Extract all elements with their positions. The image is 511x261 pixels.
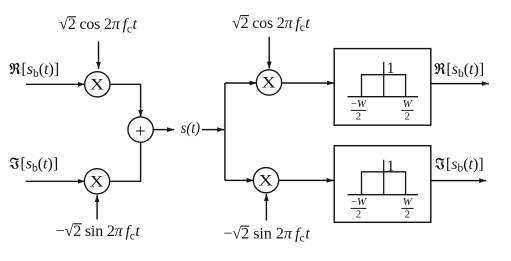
svg-text:+: + (135, 122, 146, 143)
svg-text:√2 cos 2π fct: √2 cos 2π fct (232, 15, 310, 34)
svg-text:[sb(t)]: [sb(t)] (446, 156, 484, 175)
svg-text:−W: −W (351, 98, 367, 110)
svg-text:[sb(t)]: [sb(t)] (446, 61, 484, 80)
svg-text:−√2 sin 2π fct: −√2 sin 2π fct (56, 223, 141, 242)
svg-text:2: 2 (405, 111, 410, 123)
svg-text:X: X (90, 172, 104, 190)
svg-text:1: 1 (387, 60, 395, 77)
svg-text:X: X (90, 75, 104, 93)
svg-text:2: 2 (356, 209, 361, 221)
svg-text:W: W (403, 196, 413, 208)
svg-text:1: 1 (387, 158, 395, 175)
svg-text:X: X (259, 171, 273, 189)
svg-text:2: 2 (356, 111, 361, 123)
svg-text:X: X (262, 73, 276, 91)
svg-text:−W: −W (351, 196, 367, 208)
svg-text:[sb(t)]: [sb(t)] (21, 61, 59, 80)
svg-text:W: W (403, 98, 413, 110)
svg-text:s(t): s(t) (181, 120, 200, 137)
svg-text:2: 2 (405, 209, 410, 221)
svg-text:[sb(t)]: [sb(t)] (20, 155, 58, 174)
svg-text:√2 cos 2π fct: √2 cos 2π fct (59, 16, 137, 35)
svg-text:−√2 sin 2π fct: −√2 sin 2π fct (223, 225, 310, 244)
